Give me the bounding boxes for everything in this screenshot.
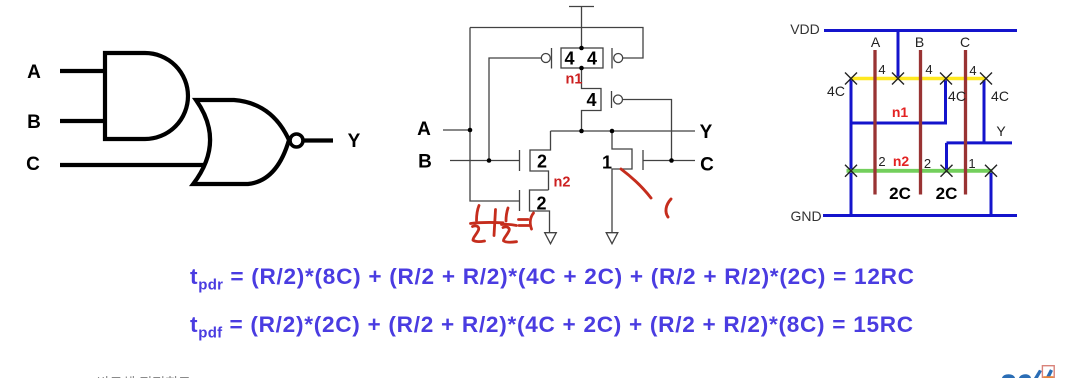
junction dot A <box>468 128 473 133</box>
svg-text:GND: GND <box>790 208 821 224</box>
svg-text:2: 2 <box>924 156 931 171</box>
width label 2 (B nmos) <box>924 156 931 171</box>
svg-text:A: A <box>871 34 881 50</box>
footer text <box>0 373 231 378</box>
wire B-branch to PMOS M1 gate <box>489 58 541 161</box>
PMOS M3 source-drain path <box>582 68 602 131</box>
pdiff row (yellow) <box>851 77 986 81</box>
red annotation curve near NMOS M6 <box>621 169 671 217</box>
cap label 4C middle <box>948 88 966 104</box>
svg-text:2: 2 <box>878 154 885 169</box>
svg-text:n2: n2 <box>893 153 910 169</box>
contact X ndiff-1 <box>845 165 857 177</box>
svg-text:2: 2 <box>536 194 546 214</box>
NMOS M5 gate bar <box>519 190 521 211</box>
svg-text:4C: 4C <box>991 88 1009 104</box>
ground symbol left <box>545 233 557 244</box>
svg-text:4: 4 <box>969 63 976 78</box>
PMOS M3 gate bar <box>611 91 613 108</box>
svg-text:4C: 4C <box>827 83 845 99</box>
poly line C <box>964 50 967 195</box>
poly label B <box>915 34 924 50</box>
svg-text:C: C <box>26 154 40 175</box>
NOR gate output bubble <box>290 134 303 147</box>
PMOS M1 gate bar <box>551 48 553 69</box>
svg-text:2: 2 <box>537 152 547 172</box>
svg-text:n2: n2 <box>554 175 571 191</box>
junction dot B <box>487 158 492 163</box>
wire VDD drop to pdiff <box>897 31 900 79</box>
cap label 2C left <box>889 184 911 203</box>
PMOS M3 gate bubble <box>614 95 623 104</box>
wire B to AND gate <box>60 119 104 123</box>
red annotation half plus half <box>471 206 534 243</box>
PMOS M2 gate bar <box>611 48 613 69</box>
junction dot Y-PMOS M3 <box>579 129 584 134</box>
logo bottom right <box>1002 366 1054 378</box>
value label 1 NMOS M6 <box>602 153 612 173</box>
wire node Y <box>947 79 1013 171</box>
wire input A <box>443 129 470 131</box>
contact X pdiff-3 <box>940 73 952 85</box>
svg-text:Y: Y <box>700 122 713 143</box>
value label 4 PMOS M3 <box>586 90 596 110</box>
node label n1 (stick) <box>892 104 909 120</box>
NOR gate U2 body <box>193 100 289 184</box>
output label Y (cmos) <box>700 122 713 143</box>
svg-text:4: 4 <box>878 62 885 77</box>
junction dot Y-NMOS M6 <box>610 129 615 134</box>
wire NOR output to Y <box>304 138 334 142</box>
cap label 4C right <box>991 88 1009 104</box>
wire A to AND gate <box>60 69 104 73</box>
wire VDD contact left column <box>850 79 853 216</box>
wire PMOS M3 gate to C <box>623 100 672 161</box>
svg-text:4: 4 <box>925 62 932 77</box>
input label C <box>26 154 40 175</box>
svg-text:B: B <box>418 152 432 173</box>
GND rail (metal) <box>823 214 1017 217</box>
value label 4 PMOS M2 <box>587 49 597 69</box>
VDD rail (metal) <box>824 29 1017 32</box>
equation tpdr <box>190 264 915 294</box>
node label Y (stick) <box>996 123 1006 139</box>
value label 4 PMOS M1 <box>564 49 574 69</box>
junction dot node n1 <box>579 66 584 71</box>
input label B (cmos) <box>418 152 432 173</box>
wire GND contact right column <box>990 171 993 216</box>
poly line A <box>873 50 876 195</box>
contact X pdiff-1 <box>845 73 857 85</box>
width label 1 (C nmos) <box>968 156 975 171</box>
junction dot C <box>669 158 674 163</box>
svg-text:1: 1 <box>602 153 612 173</box>
value label 2 NMOS M4 <box>537 152 547 172</box>
svg-text:1: 1 <box>968 156 975 171</box>
svg-text:4C: 4C <box>948 88 966 104</box>
svg-text:n1: n1 <box>566 72 583 88</box>
input label A <box>27 62 41 83</box>
NMOS M5 source-drain path <box>530 190 550 233</box>
wire A-branch top to PMOS M2 gate <box>470 28 643 59</box>
wire C to NOR gate <box>60 163 207 167</box>
equation tpdf <box>190 312 914 342</box>
svg-text:Y: Y <box>348 131 361 152</box>
poly label A <box>871 34 881 50</box>
node label n2 (stick) <box>893 153 910 169</box>
PMOS M2 gate bubble <box>614 54 623 63</box>
svg-text:VDD: VDD <box>790 21 820 37</box>
svg-text:4: 4 <box>564 49 574 69</box>
contact X ndiff-2 <box>941 165 953 177</box>
GND rail label <box>790 208 821 224</box>
ground symbol right <box>606 233 618 244</box>
svg-text:A: A <box>27 62 41 83</box>
svg-text:A: A <box>417 119 431 140</box>
node label n2 <box>554 175 571 191</box>
node label n1 <box>566 72 583 88</box>
PMOS pair M1 M2 channel box <box>561 48 603 68</box>
NMOS M4 source-drain path <box>530 131 551 190</box>
wire node n1 u-shape <box>851 79 946 124</box>
wire output node Y <box>551 130 696 132</box>
input label C (cmos) <box>700 155 714 176</box>
svg-text:n1: n1 <box>892 104 909 120</box>
svg-text:B: B <box>27 112 41 133</box>
contact X pdiff-2 <box>892 73 904 85</box>
svg-text:2C: 2C <box>936 184 958 203</box>
cap label 2C right <box>936 184 958 203</box>
contact X pdiff-4 <box>980 73 992 85</box>
svg-text:B: B <box>915 34 924 50</box>
AND gate U1 <box>105 53 188 139</box>
ndiff row (green) <box>847 169 993 173</box>
cap label 4C left <box>827 83 845 99</box>
wire NMOS M6 gate to C <box>643 160 695 162</box>
width label 4 (C pmos) <box>969 63 976 78</box>
VDD rail label <box>790 21 820 37</box>
svg-text:4: 4 <box>586 90 596 110</box>
input label A (cmos) <box>417 119 431 140</box>
wire A vertical down to NMOS M5 gate <box>470 28 520 202</box>
VDD supply bar <box>569 6 594 8</box>
contact X ndiff-3 <box>985 165 997 177</box>
poly label C <box>960 34 970 50</box>
svg-text:C: C <box>700 155 714 176</box>
poly line B <box>919 50 922 195</box>
width label 4 (A pmos) <box>878 62 885 77</box>
svg-text:Y: Y <box>996 123 1006 139</box>
NMOS M6 gate bar <box>642 150 644 170</box>
svg-text:2C: 2C <box>889 184 911 203</box>
wire input B <box>450 160 520 162</box>
wire VDD to PMOS pair <box>581 7 583 49</box>
width label 4 (B pmos) <box>925 62 932 77</box>
output label Y <box>348 131 361 152</box>
value label 2 NMOS M5 <box>536 194 546 214</box>
svg-text:4: 4 <box>587 49 597 69</box>
input label B <box>27 112 41 133</box>
svg-text:C: C <box>960 34 970 50</box>
PMOS M1 gate bubble <box>541 54 550 63</box>
junction dot VDD-PMOS pair <box>579 46 584 51</box>
NMOS M4 gate bar <box>519 150 521 171</box>
width label 2 (A nmos) <box>878 154 885 169</box>
NMOS M6 source-drain path <box>612 131 632 233</box>
